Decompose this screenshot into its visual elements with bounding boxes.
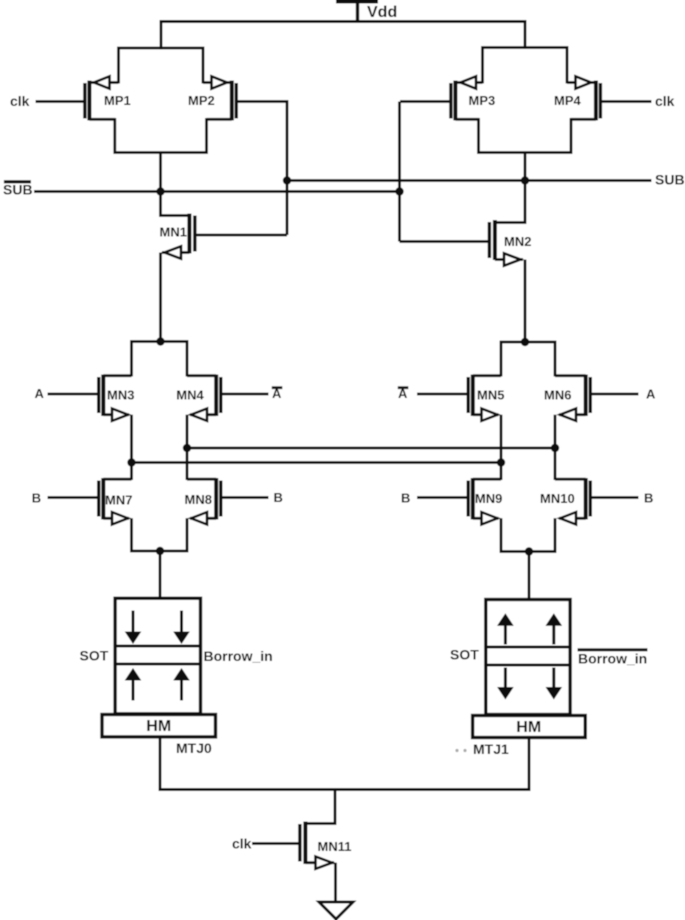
- wire cross line lower: [132, 461, 502, 464]
- svg-text:MP3: MP3: [469, 93, 496, 108]
- node dot MN12 source to MN34: [156, 337, 164, 345]
- node dot cross lower left: [127, 458, 135, 466]
- wire MTJ1 bottom stem: [528, 738, 531, 791]
- wire right rail drop: [524, 20, 527, 49]
- wire MN1 source down: [159, 253, 162, 343]
- arrow MTJ1 top-right up: [546, 613, 563, 644]
- node dot cross lower right: [497, 458, 505, 466]
- wire top rail: [160, 20, 527, 23]
- wire MP pair left bottom stem: [159, 153, 162, 193]
- wire MP4 gate lead: [602, 100, 652, 103]
- MTJ device MTJ1: [486, 600, 570, 715]
- node dot SUBbar-MP3gate junction: [395, 187, 403, 195]
- wire MN5 source vertical: [500, 415, 503, 480]
- svg-text:clk: clk: [10, 93, 30, 109]
- svg-text:HM: HM: [146, 718, 171, 735]
- svg-text:MN4: MN4: [176, 388, 204, 403]
- svg-text:HM: HM: [516, 719, 541, 736]
- svg-text:A: A: [272, 386, 282, 401]
- wire left rail drop: [160, 20, 163, 50]
- transistor MN2: [400, 181, 532, 266]
- transistor MN9: [417, 478, 502, 525]
- wire MN3 source vertical: [130, 415, 133, 480]
- transistor MP1: [36, 76, 131, 120]
- wire MP1-MP2 top connector: [119, 48, 204, 84]
- SUBbar label left: [3, 180, 33, 197]
- wire MP3-MP4 top connector: [483, 48, 568, 84]
- svg-text:clk: clk: [232, 836, 252, 852]
- svg-text:MP4: MP4: [554, 93, 582, 108]
- transistor MN4: [176, 375, 268, 421]
- node dot SUB-MP2gate junction: [283, 176, 291, 184]
- arrow MTJ0 top-left down: [125, 611, 142, 645]
- svg-text:MP2: MP2: [188, 93, 215, 108]
- node dot MN910 bottom: [525, 547, 533, 555]
- svg-text:MTJ0: MTJ0: [176, 740, 212, 756]
- svg-text:MN1: MN1: [160, 225, 187, 240]
- transistor MN6: [544, 375, 639, 421]
- wire cross line upper: [187, 447, 555, 450]
- transistor MP2: [188, 76, 236, 120]
- node dot SUBbar-MP12 junction: [156, 187, 164, 195]
- HM bar MTJ0: [102, 715, 216, 737]
- svg-text:Borrow_in: Borrow_in: [204, 648, 273, 664]
- arrow MTJ0 bottom-right up: [173, 668, 190, 701]
- wire SUB line: [287, 179, 652, 182]
- Vdd stem wire: [356, 1, 359, 22]
- transistor MP4: [554, 76, 600, 120]
- node dot cross upper left: [183, 444, 191, 452]
- wire MN9-MN10 bottom connector: [501, 518, 555, 551]
- transistor MN7: [48, 478, 133, 525]
- svg-text:B: B: [32, 491, 41, 506]
- wire MN7-MN8 bottom connector: [132, 518, 188, 551]
- ground: [319, 902, 353, 919]
- MTJ device MTJ0: [115, 598, 200, 714]
- svg-text:B: B: [401, 491, 410, 506]
- svg-text:Vdd: Vdd: [367, 4, 397, 21]
- wire SUBbar line: [34, 190, 400, 193]
- wire MP3 gate to SUBbar node to MN2 gate: [398, 102, 401, 242]
- svg-text:A: A: [646, 387, 656, 402]
- Vdd supply bar: [336, 0, 378, 4]
- HM bar MTJ1: [473, 716, 586, 738]
- node dot MN78 bottom: [156, 547, 164, 555]
- svg-text:SUB: SUB: [3, 182, 33, 198]
- Abar label (MN5): [398, 386, 409, 401]
- svg-text:MN9: MN9: [475, 491, 502, 506]
- wire MP3-MP4 bottom connector: [479, 118, 572, 153]
- svg-text:MN11: MN11: [318, 839, 352, 854]
- wire MN6 source vertical: [554, 415, 557, 480]
- transistor MN10: [540, 478, 639, 525]
- transistor MN5: [417, 375, 504, 421]
- transistor MN1: [160, 192, 288, 259]
- wire MP2 gate to SUB node to MN1 gate: [238, 102, 287, 236]
- wire bottom rail: [159, 788, 531, 791]
- svg-text:MN3: MN3: [107, 388, 134, 403]
- arrow MTJ1 bottom-left down: [497, 668, 514, 700]
- arrow MTJ0 bottom-left up: [125, 668, 142, 701]
- Borrow_in bar label: [578, 648, 648, 666]
- transistor MP3: [400, 76, 495, 120]
- svg-text:B: B: [644, 491, 653, 506]
- node dot cross upper right: [551, 444, 559, 452]
- decorative dots before MTJ1 label: [455, 749, 466, 752]
- arrow MTJ1 top-left up: [497, 613, 514, 644]
- arrow MTJ1 bottom-right down: [546, 668, 563, 700]
- svg-text:MN5: MN5: [477, 388, 504, 403]
- Abar label (MN4): [272, 386, 283, 401]
- svg-text:MN7: MN7: [105, 493, 132, 508]
- wire MN3-MN4 top connector: [132, 342, 188, 377]
- wire MN4 source vertical: [186, 415, 189, 480]
- wire MN5-MN6 top connector: [501, 342, 555, 377]
- svg-text:MN8: MN8: [185, 492, 212, 507]
- svg-text:A: A: [398, 386, 408, 401]
- wire MP pair right bottom stem: [524, 153, 527, 182]
- svg-text:clk: clk: [655, 93, 675, 109]
- svg-text:A: A: [35, 386, 45, 401]
- svg-text:MN2: MN2: [504, 234, 531, 249]
- svg-text:MN6: MN6: [544, 388, 571, 403]
- wire MTJ0 bottom stem: [159, 737, 162, 791]
- svg-text:MN10: MN10: [540, 491, 575, 506]
- svg-text:SUB: SUB: [655, 172, 685, 188]
- arrow MTJ0 top-right down: [173, 611, 190, 645]
- wire MN11 source down: [334, 863, 337, 903]
- node dot SUB-MP34 junction: [521, 176, 529, 184]
- svg-text:MTJ1: MTJ1: [473, 741, 509, 757]
- svg-text:SOT: SOT: [450, 647, 479, 663]
- transistor MN11: [252, 822, 351, 869]
- wire MN2 source down: [524, 260, 527, 343]
- svg-text:SOT: SOT: [80, 648, 109, 664]
- wire MP1-MP2 bottom connector: [115, 118, 207, 153]
- transistor MN8: [185, 478, 269, 525]
- wire MTJ0 top stem: [159, 551, 162, 599]
- wire MTJ1 top stem: [528, 552, 531, 601]
- svg-text:B: B: [274, 490, 283, 505]
- wire MN11 drain stem: [307, 790, 335, 824]
- node dot MN2 source to MN56: [521, 338, 529, 346]
- svg-text:Borrow_in: Borrow_in: [578, 651, 647, 667]
- svg-text:MP1: MP1: [104, 93, 131, 108]
- transistor MN3: [48, 375, 135, 421]
